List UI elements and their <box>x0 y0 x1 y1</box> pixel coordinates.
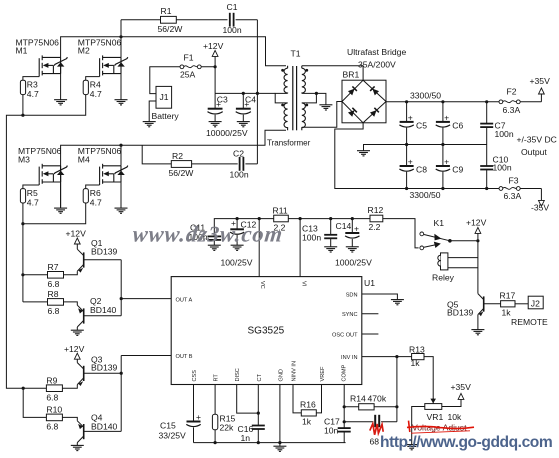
wire: R6 bottom + lower gate bus <box>23 203 86 224</box>
resistor R7 6.8 <box>48 262 64 289</box>
relay coil K1 <box>432 253 478 283</box>
svg-text:BD139: BD139 <box>91 363 117 373</box>
capacitor C10 100n <box>480 145 512 189</box>
resistor R14 470k <box>350 394 387 410</box>
svg-text:C14: C14 <box>336 221 352 231</box>
svg-text:R8: R8 <box>48 289 59 299</box>
wire: R2/C2 snubber row <box>142 145 257 164</box>
ground <box>54 100 67 105</box>
svg-text:25A: 25A <box>180 70 196 80</box>
MOSFET M1 MTP75N06 <box>16 38 68 77</box>
svg-text:1000/25V: 1000/25V <box>335 257 372 267</box>
wire: CT pin to C16 <box>257 385 259 426</box>
wire: M4 source to ground <box>120 175 122 208</box>
transistor Q4 BD140 <box>77 413 121 446</box>
svg-text:Battery: Battery <box>152 111 180 121</box>
svg-text:GND: GND <box>278 369 284 381</box>
svg-text:J1: J1 <box>160 92 169 102</box>
wire: R7 to Q1 emitter <box>64 271 78 275</box>
junction <box>485 187 488 190</box>
junction <box>120 372 123 375</box>
junction <box>441 187 444 190</box>
core <box>292 66 294 130</box>
wire: COMP pin down through C17 <box>343 385 345 443</box>
svg-text:R12: R12 <box>368 205 384 215</box>
primary phase dots <box>281 69 284 72</box>
ground <box>71 330 84 335</box>
svg-text:4.7: 4.7 <box>90 89 102 99</box>
svg-text:R14: R14 <box>350 394 366 404</box>
svg-text:56/2W: 56/2W <box>169 168 195 178</box>
svg-text:+12V: +12V <box>66 229 87 239</box>
capacitor C12 100/25V <box>230 218 256 245</box>
wire: +12V bus to transformer center tap <box>215 92 275 94</box>
junction <box>21 114 24 117</box>
svg-text:BD140: BD140 <box>90 305 116 315</box>
wire: fuse row from battery to +12V node <box>150 67 215 94</box>
junction <box>22 387 25 390</box>
junction <box>21 273 24 276</box>
svg-text:35A/200V: 35A/200V <box>358 60 396 70</box>
wire: VC pin drop <box>258 219 260 277</box>
svg-text:T1: T1 <box>291 49 301 59</box>
svg-text:C8: C8 <box>416 165 427 175</box>
resistor R17 1k <box>500 291 516 318</box>
wire: OUT A rail <box>121 260 171 316</box>
junction <box>441 100 444 103</box>
annotation: Voltage Adjust (red strikethrough) <box>407 421 474 434</box>
wire: R4 bottom + upper gate bus <box>6 95 85 389</box>
diode (bridge, upper-right) <box>370 86 379 95</box>
capacitor C17 10n <box>324 416 351 435</box>
wire: DISC pin jog to CT line <box>237 385 259 414</box>
wire: M2 source to ground <box>120 67 122 100</box>
wire: bridge negative to -35V rail <box>335 123 499 189</box>
wire: R17 to J2 <box>515 303 528 305</box>
junction <box>257 412 260 415</box>
node +12V (Q1 collector) <box>66 229 87 250</box>
svg-text:4.7: 4.7 <box>27 197 39 207</box>
svg-text:100n: 100n <box>302 232 321 242</box>
svg-text:R9: R9 <box>46 375 57 385</box>
relay contact K1 <box>420 218 450 250</box>
capacitor 68 (across R14) <box>370 415 384 447</box>
svg-text:6.3A: 6.3A <box>503 105 521 115</box>
potentiometer VR1 10k <box>425 398 462 422</box>
svg-text:+/-35V DC: +/-35V DC <box>517 135 557 145</box>
svg-text:C1: C1 <box>227 2 238 12</box>
svg-text:M1: M1 <box>16 46 28 56</box>
wire: R3 bottom to upper gate bus <box>22 95 24 116</box>
svg-text:+: + <box>408 157 413 167</box>
wire: M3 source to ground <box>60 175 62 208</box>
capacitor C6 3300/50 <box>436 102 464 145</box>
ground <box>357 151 370 156</box>
wire: R9 to Q3 emitter <box>62 385 77 389</box>
secondary phase dots <box>305 69 308 72</box>
junction <box>315 92 318 95</box>
primary winding <box>284 66 288 94</box>
capacitor C7 100n <box>480 102 514 145</box>
diode (bridge, lower-left) <box>348 108 357 117</box>
svg-text:+35V: +35V <box>530 76 551 86</box>
svg-text:100n: 100n <box>223 25 242 35</box>
svg-text:VR1: VR1 <box>427 412 444 422</box>
svg-text:+: + <box>216 99 221 109</box>
wire: M3/M4 drain bus to transformer primary bottom <box>61 130 286 207</box>
wire: Q5 emitter to ground <box>477 315 479 330</box>
ground <box>208 245 221 250</box>
svg-text:1k: 1k <box>411 358 421 368</box>
node +12V (relay) <box>466 217 487 293</box>
svg-text:M2: M2 <box>78 46 90 56</box>
svg-text:F3: F3 <box>509 176 519 186</box>
svg-text:+12V: +12V <box>64 344 85 354</box>
svg-text:C5: C5 <box>416 121 427 131</box>
junction <box>214 441 217 444</box>
resistor R2 <box>169 151 195 178</box>
svg-text:http://www.go-gddq.com: http://www.go-gddq.com <box>380 434 552 451</box>
svg-text:DISC: DISC <box>235 368 241 381</box>
ground <box>273 446 286 451</box>
svg-text:VC: VC <box>259 281 265 289</box>
ground <box>471 330 484 335</box>
wire: M3 gate to R5 <box>23 185 39 189</box>
junction <box>405 187 408 190</box>
svg-text:68: 68 <box>370 436 380 446</box>
capacitor C13 100n <box>302 219 337 247</box>
capacitor C8 3300/50 <box>399 145 427 189</box>
svg-text:M3: M3 <box>18 154 30 164</box>
wire: R16 to VREF pin <box>316 385 321 413</box>
svg-text:INV IN: INV IN <box>341 355 357 361</box>
resistor R15 22k <box>212 414 235 433</box>
capacitor C1 <box>223 2 242 35</box>
resistor R5 <box>20 188 39 207</box>
svg-text:BD140: BD140 <box>91 421 117 431</box>
svg-text:VREF: VREF <box>320 366 326 382</box>
fuse F1 25A <box>180 53 201 80</box>
ground <box>115 208 128 213</box>
capacitor C5 3300/50 <box>399 102 427 145</box>
capacitor C2 <box>230 148 249 179</box>
wire: +12V VCC bus above IC <box>214 219 418 248</box>
junction <box>299 217 302 220</box>
svg-text:SG3525: SG3525 <box>248 326 285 337</box>
wire: R10 to Q4 emitter <box>62 417 77 420</box>
ground <box>405 445 418 450</box>
wire: M1/M2 drain bus to transformer primary top <box>61 37 286 66</box>
wire + node +35V output <box>520 76 550 102</box>
ground <box>237 122 250 127</box>
junction <box>405 143 408 146</box>
wire: VR1 left lead to ground <box>412 407 425 445</box>
transformer T1 <box>267 49 311 148</box>
junction <box>214 65 217 68</box>
fuse F3 6.3A <box>499 176 521 201</box>
wire: branch down to R10 <box>23 388 46 417</box>
junction <box>351 217 354 220</box>
svg-text:R11: R11 <box>273 206 288 216</box>
wire: R5 bottom down to driver bus <box>22 203 24 302</box>
diode (bridge, upper-left) <box>348 86 357 95</box>
svg-text:3300/50: 3300/50 <box>410 90 441 100</box>
wire: secondary top to bridge AC1 <box>302 66 363 80</box>
wire: M1 source to ground <box>60 67 62 100</box>
ground <box>346 247 359 252</box>
wire: center-tap vertical rail <box>256 20 258 164</box>
wire + node -35V output <box>520 189 549 213</box>
svg-text:Ultrafast Bridge: Ultrafast Bridge <box>347 47 406 57</box>
capacitor C3 10000/25V <box>208 93 229 121</box>
svg-text:6.3A: 6.3A <box>504 191 522 201</box>
svg-text:R13: R13 <box>409 345 425 355</box>
junction <box>448 239 452 243</box>
primary center tap <box>275 93 287 103</box>
svg-text:+: + <box>444 113 449 123</box>
wire: M1 gate to R3 <box>23 77 39 81</box>
wire: bridge positive rail <box>386 101 499 103</box>
wire: M2 gate to R4 <box>86 77 100 81</box>
wire: M4 gate to R6 <box>86 185 100 189</box>
svg-text:R16: R16 <box>300 400 316 410</box>
capacitor C11 100n <box>189 222 222 245</box>
svg-text:R10: R10 <box>46 405 62 415</box>
junction <box>343 420 346 423</box>
wire: OSC OUT stub <box>362 333 379 335</box>
svg-text:R1: R1 <box>161 6 172 16</box>
junction <box>395 355 398 358</box>
svg-text:Output: Output <box>521 147 547 157</box>
wire: VI pin drop <box>299 219 301 277</box>
wire: R1/C1 snubber top rail <box>121 20 257 58</box>
wire: R9 row <box>46 387 47 389</box>
ground <box>115 100 128 105</box>
wire: INV IN to R13 <box>362 357 433 399</box>
svg-text:470k: 470k <box>368 394 387 404</box>
svg-text:C9: C9 <box>452 165 463 175</box>
svg-text:SYNC: SYNC <box>342 312 358 318</box>
junction <box>256 92 259 95</box>
wire: RT pin through R15 <box>214 385 216 443</box>
svg-text:R2: R2 <box>172 151 183 161</box>
diode (bridge, lower-right) <box>370 108 379 117</box>
resistor R1 <box>158 6 184 34</box>
wire: M4 drain stub <box>120 145 122 166</box>
svg-text:+: + <box>196 412 201 422</box>
wire: 68 cap row COMP to INV node <box>344 357 397 422</box>
resistor R10 6.8 <box>46 405 62 432</box>
svg-text:VI: VI <box>301 281 307 287</box>
svg-text:+: + <box>244 99 249 109</box>
wire: secondary bottom to bridge AC2 <box>302 102 342 128</box>
svg-text:C2: C2 <box>233 148 244 158</box>
svg-text:BD139: BD139 <box>447 307 473 317</box>
wire: NINV IN pin to R16 <box>293 385 301 413</box>
junction <box>21 222 24 225</box>
junction <box>120 297 123 300</box>
bridge rectifier BR1 Ultrafast Bridge 35A/200V <box>342 47 406 123</box>
junction <box>485 100 488 103</box>
svg-text:+: + <box>444 157 449 167</box>
junction <box>395 405 398 408</box>
wire: secondary center tap to ground <box>302 93 326 104</box>
ground <box>209 122 222 127</box>
wire: R8 to Q2 emitter <box>64 302 78 305</box>
resistor R3 <box>20 80 39 99</box>
wire: R8 from bus corner <box>23 301 48 303</box>
wire: analog ground bus under IC <box>194 385 346 447</box>
connector J2 REMOTE <box>511 296 548 327</box>
svg-text:4.7: 4.7 <box>90 197 102 207</box>
junction <box>329 217 332 220</box>
IC U1 SG3525 <box>171 277 375 385</box>
wire: relay common to +12V stem <box>450 240 478 242</box>
svg-text:C15: C15 <box>160 421 176 431</box>
ground <box>324 247 337 252</box>
svg-text:100/25V: 100/25V <box>221 257 253 267</box>
junction <box>258 217 261 220</box>
svg-text:J2: J2 <box>531 299 540 309</box>
svg-text:CSS: CSS <box>192 370 198 382</box>
junction <box>343 405 346 408</box>
svg-text:10k: 10k <box>448 412 463 422</box>
svg-text:RT: RT <box>214 374 220 382</box>
svg-text:100n: 100n <box>230 169 249 179</box>
ground <box>391 300 404 305</box>
svg-text:100n: 100n <box>495 129 514 139</box>
svg-text:1k: 1k <box>502 307 512 317</box>
junction <box>257 441 260 444</box>
junction <box>405 100 408 103</box>
svg-text:NINV IN: NINV IN <box>292 361 298 382</box>
MOSFET M3 MTP75N06 <box>18 146 67 185</box>
label +/-35V DC Output <box>517 135 557 158</box>
capacitor C4 10000/25V <box>236 93 257 121</box>
MOSFET M2 MTP75N06 <box>78 38 128 77</box>
svg-text:www.dz3w.com: www.dz3w.com <box>131 222 284 247</box>
svg-text:C6: C6 <box>452 121 463 131</box>
svg-text:Reley: Reley <box>432 272 455 282</box>
resistor R4 <box>83 80 102 99</box>
secondary winding <box>302 66 306 94</box>
wire: mid 0V rail with ground <box>364 145 487 151</box>
svg-text:BD139: BD139 <box>91 247 117 257</box>
capacitor C14 1000/25V <box>336 219 360 247</box>
MOSFET M4 MTP75N06 <box>78 146 128 185</box>
wire: SYNC stub <box>362 313 379 315</box>
svg-text:1k: 1k <box>302 417 312 427</box>
svg-text:BR1: BR1 <box>343 70 360 80</box>
capacitor C15 33/25V <box>159 412 202 443</box>
svg-text:10000/25V: 10000/25V <box>206 128 248 138</box>
resistor R12 2.2 <box>368 205 384 232</box>
transistor Q1 BD139 <box>77 238 121 273</box>
wire: R14 row COMP to INV node <box>344 406 397 408</box>
ground <box>71 445 84 450</box>
svg-text:56/2W: 56/2W <box>158 24 184 34</box>
svg-text:K1: K1 <box>434 218 445 228</box>
fuse F2 6.3A <box>499 87 520 115</box>
ground <box>231 245 244 250</box>
resistor R16 1k <box>300 400 316 427</box>
resistor R13 1k <box>409 345 425 368</box>
svg-text:SDN: SDN <box>346 293 358 299</box>
svg-text:R7: R7 <box>48 262 59 272</box>
svg-text:F2: F2 <box>507 87 517 97</box>
junction <box>242 92 245 95</box>
svg-text:OUT B: OUT B <box>176 354 193 360</box>
svg-text:+35V: +35V <box>451 382 472 392</box>
svg-text:+: + <box>408 113 413 123</box>
capacitor C16 1n <box>238 424 265 443</box>
svg-text:OUT A: OUT A <box>176 297 193 303</box>
junction <box>119 35 122 38</box>
wire: CSS pin to C15 <box>193 385 195 422</box>
svg-text:1n: 1n <box>241 433 251 443</box>
svg-text:U1: U1 <box>364 278 375 288</box>
wire: R7 tap from gate-drive bus <box>23 274 48 276</box>
svg-text:+12V: +12V <box>203 41 224 51</box>
transistor Q2 BD140 <box>77 296 121 330</box>
svg-text:6.8: 6.8 <box>46 422 58 432</box>
wire + node +35V (VR1 right lead) <box>442 382 471 406</box>
svg-text:33/25V: 33/25V <box>159 430 187 440</box>
junction <box>278 441 281 444</box>
wire: OUT B rail <box>121 356 171 432</box>
svg-text:6.8: 6.8 <box>46 392 58 402</box>
junction <box>441 143 444 146</box>
resistor R6 <box>83 188 102 207</box>
svg-text:COMP: COMP <box>341 364 347 381</box>
svg-text:6.8: 6.8 <box>48 279 60 289</box>
wire: J1 lower lead to ground <box>149 101 156 122</box>
svg-text:100n: 100n <box>493 163 512 173</box>
svg-text:4.7: 4.7 <box>27 89 39 99</box>
wire: SDN pin to ground <box>362 294 398 300</box>
svg-text:3300/50: 3300/50 <box>410 190 441 200</box>
svg-text:+: + <box>354 223 359 233</box>
node +12V (battery) <box>203 41 224 93</box>
resistor R9 6.8 <box>46 375 62 402</box>
svg-text:+12V: +12V <box>466 217 487 227</box>
junction <box>119 144 122 147</box>
transistor Q3 BD139 <box>77 354 121 386</box>
node +12V (Q3 collector) <box>64 344 85 363</box>
transistor Q5 BD139 <box>447 294 501 318</box>
svg-text:REMOTE: REMOTE <box>511 317 548 327</box>
connector J1 Battery <box>152 86 180 121</box>
svg-text:M4: M4 <box>78 154 90 164</box>
junction <box>476 239 479 242</box>
ground <box>319 105 332 110</box>
capacitor C9 3300/50 <box>436 145 464 189</box>
svg-text:OSC OUT: OSC OUT <box>332 333 358 339</box>
svg-text:CT: CT <box>257 373 263 381</box>
junction <box>236 217 239 220</box>
svg-text:-35V: -35V <box>531 202 549 212</box>
svg-text:10n: 10n <box>324 426 339 436</box>
svg-text:F1: F1 <box>184 53 194 63</box>
svg-text:Transformer: Transformer <box>267 139 311 148</box>
svg-text:R17: R17 <box>500 291 516 301</box>
svg-text:2.2: 2.2 <box>369 222 381 232</box>
svg-text:6.8: 6.8 <box>48 306 60 316</box>
ground <box>143 122 156 127</box>
resistor R8 6.8 <box>48 289 64 316</box>
svg-text:22k: 22k <box>220 423 235 433</box>
resistor R11 2.2 <box>273 206 289 233</box>
